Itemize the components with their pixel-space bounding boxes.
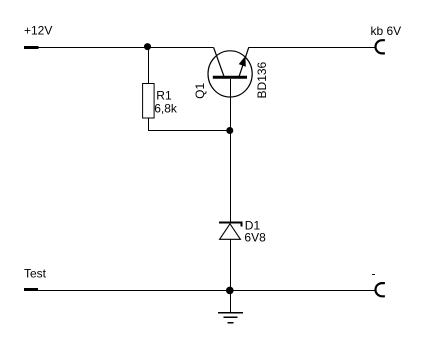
wire bottom horizontal — [38, 290, 375, 292]
wire R1 bottom to base node — [148, 130, 230, 132]
svg-text:-: - — [372, 267, 376, 281]
svg-text:6V8: 6V8 — [244, 230, 266, 244]
connector kb 6V symbol — [376, 40, 385, 53]
wire top-right horizontal — [249, 47, 375, 49]
wire diode to ground rail — [230, 239, 232, 313]
resistor R1 body — [143, 84, 155, 119]
svg-text:kb 6V: kb 6V — [371, 24, 402, 38]
terminal stub Test — [24, 288, 38, 291]
node junction base/R1 — [226, 127, 233, 134]
connector minus symbol — [376, 283, 385, 296]
node junction ground — [226, 287, 234, 295]
wire junction to R1 — [148, 47, 150, 83]
node junction R1 top — [144, 43, 151, 50]
wire top-left horizontal — [39, 47, 214, 49]
svg-text:BD136: BD136 — [255, 61, 269, 98]
transistor Q1 base bar — [213, 76, 247, 79]
wire R1 bottom down — [148, 119, 150, 131]
transistor Q1 circle — [208, 51, 252, 97]
transistor Q1 collector lead diagonal — [214, 48, 225, 78]
transistor Q1 emitter arrow — [239, 56, 246, 67]
terminal stub +12V — [24, 46, 39, 49]
zener diode D1 triangle — [220, 224, 241, 240]
svg-text:+12V: +12V — [24, 24, 52, 38]
wire base lead down — [230, 79, 232, 222]
zener diode D1 cathode bar — [219, 223, 242, 227]
ground symbol — [218, 313, 243, 323]
svg-text:Q1: Q1 — [193, 82, 207, 98]
transistor Q1 emitter lead diagonal — [239, 48, 249, 78]
svg-text:Test: Test — [24, 267, 47, 281]
svg-text:6,8k: 6,8k — [154, 101, 178, 115]
